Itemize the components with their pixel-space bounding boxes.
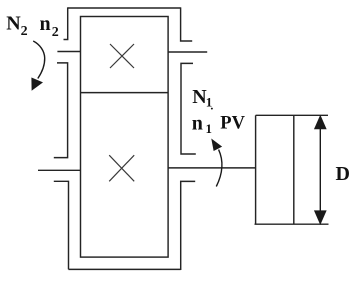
gear block outline [81,17,169,258]
drum top line [256,114,328,116]
housing left wall lower segment [54,181,69,269]
drum bottom line [255,223,329,225]
svg-text:n: n [192,113,203,135]
svg-text:D: D [336,163,350,185]
dimension arrow for D [315,116,326,224]
shaft 2 left stub [57,51,80,53]
shaft 1 left stub [38,169,81,171]
drum left edge [255,115,257,224]
svg-text:PV: PV [220,113,245,133]
gear separator line [81,92,169,94]
label N1 [192,86,213,113]
housing right wall upper segment [181,7,193,41]
gear 1 cross mark [109,155,134,181]
label n1 [192,113,212,137]
shaft 1 output shaft [168,167,256,169]
rotation arrow for shaft 1 [212,140,222,187]
svg-text:2: 2 [52,25,59,40]
label N2 [6,13,27,40]
housing top wall [68,7,181,9]
svg-text:.: . [210,98,213,112]
housing right wall middle segment [181,63,196,154]
housing left wall middle segment [54,63,68,158]
label D [336,163,350,185]
drum face line [293,115,295,224]
label n2 [40,13,59,40]
svg-text:n: n [40,13,51,35]
gear 2 cross mark [110,44,134,68]
label PV [220,113,245,133]
svg-text:1: 1 [206,121,213,136]
housing right wall lower segment [181,181,196,270]
housing left wall upper segment [64,7,68,39]
housing bottom wall [69,268,181,270]
shaft 2 right stub [168,51,207,53]
rotation arrow for shaft 2 [32,41,45,90]
svg-text:2: 2 [21,24,28,39]
svg-text:N: N [6,13,21,35]
